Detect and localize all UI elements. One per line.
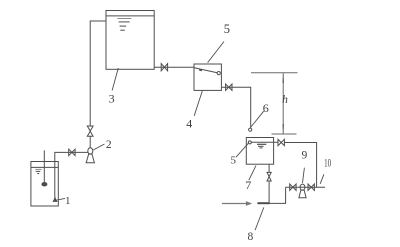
wire: feed pipe into tank 3 (90, 21, 106, 126)
tank 1 rim line (31, 166, 58, 168)
tank 3 (upper head tank) (106, 11, 154, 70)
wire: drain to outlet channel (268, 181, 270, 203)
leader for label 5 (bottom) (236, 143, 248, 157)
svg-text:h: h (282, 94, 288, 106)
leader for label 1 (57, 198, 65, 200)
meter 9 (299, 184, 306, 198)
dimension arrow up (282, 73, 284, 82)
valve left on manifold (290, 184, 296, 190)
leader for label 6 (251, 111, 264, 127)
svg-text:5: 5 (230, 155, 236, 167)
outlet channel 8 (thick) (257, 202, 269, 204)
tank 7 (measuring tank) (246, 138, 273, 165)
wire: suction line from tank 1 to pump 2 (55, 152, 88, 199)
dimension arrow down (282, 124, 284, 133)
wire: tank 3 outlet to box 4 (154, 66, 194, 68)
svg-text:2: 2 (106, 139, 112, 151)
tube through tank 7 to outlet (251, 141, 278, 143)
thermometer in tank 1 (42, 150, 47, 186)
dimension h reference line (bottom) (272, 133, 297, 135)
wire: box 4 outlet down to nozzle 6 (221, 87, 250, 128)
svg-text:7: 7 (245, 178, 251, 192)
nozzle circle on tube 5 (217, 72, 220, 75)
leader for label 9 (303, 168, 305, 183)
valve (vertical) on drain (267, 172, 271, 181)
leader for label 7 (249, 166, 256, 181)
leader for label 4 (194, 91, 202, 116)
leader for label 10 (320, 174, 324, 184)
tank 1 (lower reservoir) (31, 162, 58, 207)
tank 7 water level mark (257, 144, 266, 148)
wire: tank 7 drain (268, 164, 270, 172)
tank 3 water level mark (117, 19, 131, 31)
leader for label 5 (top) (208, 42, 224, 63)
wire: manifold pipe (286, 186, 325, 188)
leader for label 8 (255, 207, 264, 230)
leader for label 3 (112, 68, 118, 91)
svg-text:4: 4 (186, 117, 192, 131)
wire: valve to pump 2 (89, 136, 91, 148)
svg-text:10: 10 (324, 155, 331, 169)
flow arrow into channel 8 (222, 203, 246, 205)
tank 1 water level mark (35, 169, 41, 173)
svg-text:8: 8 (248, 231, 254, 243)
svg-text:3: 3 (109, 91, 115, 105)
bob on tilted tube (199, 69, 202, 72)
valve after tank 3 (161, 64, 167, 71)
valve (vertical) above pump 2 (87, 126, 93, 136)
dimension h line (282, 73, 284, 133)
svg-text:5: 5 (224, 22, 230, 36)
valve after box 4 (226, 84, 232, 90)
box 4 (constant-head tank) (194, 64, 221, 90)
foot valve at suction pipe end (53, 198, 57, 201)
tilted tube 5 inside box 4 (194, 68, 217, 73)
nozzle 6 (249, 128, 252, 131)
pump 2 (86, 148, 94, 163)
svg-text:9: 9 (302, 149, 308, 161)
tank 3 rim line (106, 15, 154, 17)
wire: manifold drop to drain (269, 187, 285, 203)
leader for label 2 (93, 144, 104, 150)
wire: tank 7 outlet to manifold (284, 143, 316, 188)
valve on suction line (69, 149, 75, 155)
nozzle circle 5 inside tank 7 (248, 141, 251, 144)
valve right on manifold (308, 184, 314, 190)
dimension h reference line (top) (251, 73, 298, 134)
svg-text:1: 1 (65, 195, 71, 207)
valve after tank 7 (278, 139, 284, 145)
svg-text:6: 6 (263, 101, 269, 115)
